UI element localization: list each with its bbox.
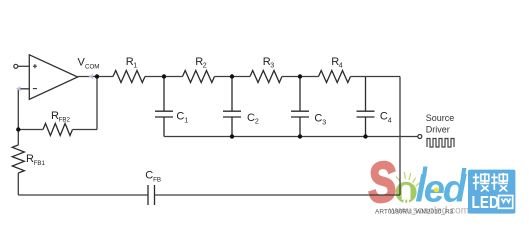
watermark l ascender extension [422,167,428,177]
svg-text:C: C [314,113,322,125]
svg-text:1: 1 [133,63,137,70]
capacitor C3 [291,77,309,137]
input terminal circle [14,64,18,68]
node dot inverting input [16,127,20,131]
svg-text:FB2: FB2 [59,117,71,124]
capacitor C2 [223,77,241,137]
wire RFB2 leads [18,129,43,131]
square wave symbol [427,139,454,148]
svg-text:C: C [380,111,388,123]
watermark yellow dot in letter e [434,188,440,193]
wire bottom feedback [18,194,148,196]
wire bottom capacitor rail [164,136,418,138]
watermark Soled logo S [365,150,398,214]
watermark blue box [468,170,515,214]
watermark LED bulb green circle (letter o) [395,182,416,203]
arrowhead faint at inverting input [16,86,21,91]
svg-text:C: C [145,170,153,182]
watermark character wang [499,196,513,209]
svg-text:COM: COM [85,63,99,70]
svg-text:Source: Source [426,113,455,123]
svg-text:LED: LED [472,193,499,212]
svg-text:FB1: FB1 [34,160,46,167]
resistor R2 [183,71,215,83]
svg-text:4: 4 [339,63,343,70]
output terminal circle [418,135,422,139]
watermark character sou 2 [491,173,508,192]
resistor RFB1 [12,145,24,173]
svg-text:C: C [176,111,184,123]
wire inverting input [18,89,29,130]
op-amp minus input symbol [33,88,37,90]
svg-text:Driver: Driver [426,124,450,134]
wire RFB1 leads [17,130,19,146]
svg-text:FB: FB [153,176,161,183]
resistor R3 [250,71,282,83]
node dot C1 top [162,74,166,78]
watermark LED bulb rays [396,172,419,186]
svg-text:4: 4 [388,117,392,124]
node dot C3 bottom [298,134,302,138]
svg-text:1: 1 [184,117,188,124]
svg-text:2: 2 [203,63,207,70]
wire output top rail [78,76,400,78]
svg-text:3: 3 [270,63,274,70]
resistor R4 [319,71,351,83]
wire right vertical feedback [399,77,401,196]
node dot C2 bottom [230,134,234,138]
svg-text:ART0180RU_WM2010_R3: ART0180RU_WM2010_R3 [375,209,454,216]
watermark d ascender extension [461,168,466,176]
capacitor C1 [155,77,173,137]
resistor R1 [113,71,145,83]
svg-text:2: 2 [255,119,259,126]
wire VCOM to RFB2 vertical [96,77,98,130]
svg-text:C: C [247,112,255,124]
svg-text:3: 3 [322,119,326,126]
node dot VCOM [95,74,99,78]
capacitor CFB [148,185,155,205]
node dot C2 top [230,74,234,78]
resistor RFB2 [43,124,73,136]
arrowhead faint at op-amp output [89,74,94,79]
wire noninverting input [18,65,29,67]
node dot C4 bottom [363,134,367,138]
capacitor C4 [357,77,375,137]
watermark LED bulb white lamp silhouette [402,185,411,200]
op-amp plus input symbol [33,64,37,68]
node dot C3 top [298,74,302,78]
watermark character sou 1 [473,173,508,192]
op-amp U1 [29,55,77,100]
